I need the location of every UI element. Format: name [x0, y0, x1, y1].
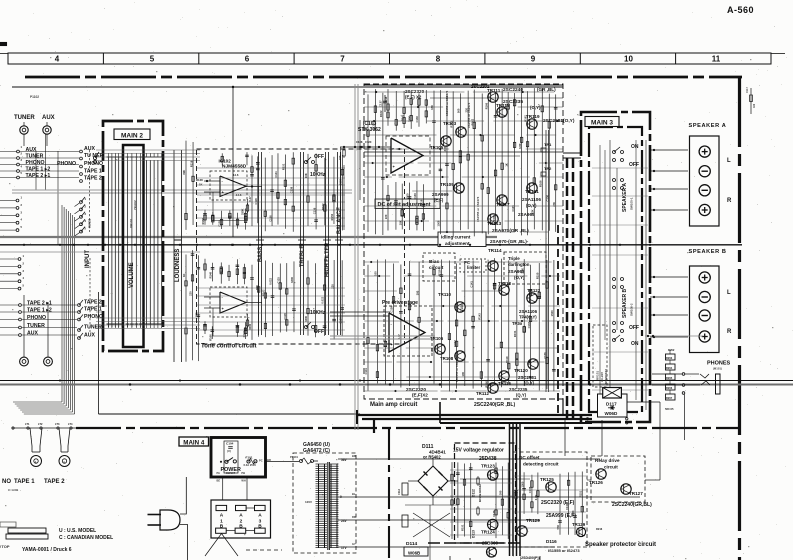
svg-text:VOLUME: VOLUME [129, 262, 135, 288]
svg-text:or R5402: or R5402 [423, 455, 441, 460]
svg-text:R166: R166 [538, 180, 542, 187]
svg-text:(E,F): (E,F) [434, 198, 444, 203]
svg-text:(GR ,BL): (GR ,BL) [537, 87, 556, 92]
svg-text:R202: R202 [668, 348, 675, 352]
svg-text:PC: PC [259, 458, 263, 462]
svg-text:3300: 3300 [443, 145, 447, 151]
svg-text:TP3o: TP3o [512, 321, 523, 326]
svg-text:14.6: 14.6 [233, 173, 239, 177]
svg-text:L: L [727, 158, 731, 164]
svg-text:6: 6 [245, 55, 250, 64]
svg-text:C139: C139 [289, 186, 293, 193]
svg-text:2SC2240(GR ,BL): 2SC2240(GR ,BL) [474, 402, 515, 408]
svg-text:R151: R151 [513, 330, 517, 337]
svg-text:TR126: TR126 [589, 480, 603, 485]
svg-text:R128: R128 [196, 178, 203, 182]
svg-text:A: A [258, 512, 262, 518]
svg-text:TAPE 1: TAPE 1 [14, 479, 35, 485]
svg-text:BALANCE: BALANCE [337, 207, 343, 234]
svg-text:C141: C141 [364, 368, 368, 375]
svg-text:3300: 3300 [290, 277, 294, 283]
svg-text:R148: R148 [209, 271, 213, 278]
svg-text:C136: C136 [528, 486, 532, 493]
svg-text:C136: C136 [543, 352, 547, 359]
svg-text:SW105-1: SW105-1 [630, 197, 634, 210]
svg-text:100: 100 [374, 271, 378, 276]
svg-text:220: 220 [189, 291, 193, 296]
svg-text:MSH8CK02: MSH8CK02 [604, 369, 608, 384]
svg-text:R143: R143 [498, 284, 502, 291]
svg-text:R162: R162 [262, 289, 266, 296]
svg-text:Tone control circuit: Tone control circuit [201, 344, 257, 350]
svg-text:LOUDNESS: LOUDNESS [175, 249, 181, 282]
svg-text:Relay drive: Relay drive [595, 458, 620, 463]
svg-text:R166: R166 [208, 334, 212, 341]
svg-text:(E,F)X2: (E,F)X2 [412, 393, 428, 398]
svg-text:1S1555 or 1S2473: 1S1555 or 1S2473 [467, 102, 471, 128]
svg-text:R205: R205 [666, 376, 673, 380]
svg-text:560 X5: 560 X5 [665, 407, 674, 411]
svg-text:PHONO: PHONO [27, 315, 46, 321]
svg-text:!TOP: !TOP [0, 544, 10, 549]
svg-text:darlington: darlington [508, 262, 530, 267]
svg-text:SPEAKER B: SPEAKER B [622, 288, 628, 318]
svg-text:R151: R151 [282, 163, 286, 170]
svg-text:7: 7 [340, 55, 345, 64]
svg-text:2SC2320 (E,F): 2SC2320 (E,F) [541, 500, 575, 506]
svg-text:15V voltage regulator: 15V voltage regulator [453, 448, 504, 454]
svg-text:TUNER: TUNER [84, 325, 102, 331]
svg-text:MAIN 2: MAIN 2 [121, 133, 143, 140]
svg-text:TAPE 2: TAPE 2 [84, 176, 102, 182]
svg-text:9: 9 [531, 55, 536, 64]
svg-text:C120: C120 [365, 140, 372, 144]
svg-text:C141: C141 [469, 281, 473, 288]
svg-text:BR: BR [352, 454, 356, 458]
svg-text:SW107: SW107 [226, 471, 236, 475]
svg-text:OFF: OFF [314, 154, 324, 160]
svg-text:(Q,Y): (Q,Y) [516, 393, 527, 398]
svg-text:C139: C139 [338, 317, 342, 324]
svg-text:1K: 1K [199, 183, 203, 187]
svg-text:R: R [727, 329, 732, 335]
svg-text:IC102: IC102 [219, 159, 232, 164]
svg-text:1500: 1500 [492, 214, 496, 220]
svg-text:D113: D113 [472, 530, 476, 538]
svg-text:120V: 120V [305, 500, 312, 504]
svg-text:C125: C125 [276, 277, 280, 284]
svg-text:10KHz: 10KHz [310, 172, 326, 178]
svg-text:R206: R206 [666, 386, 673, 390]
svg-text:OFF: OFF [629, 325, 639, 331]
svg-text:C141: C141 [565, 503, 569, 510]
svg-text:2SA970(GR ,BL): 2SA970(GR ,BL) [492, 228, 529, 234]
svg-text:3300: 3300 [248, 323, 252, 329]
svg-text:WH: WH [241, 478, 245, 482]
svg-text:10K: 10K [304, 173, 308, 178]
svg-text:C139: C139 [413, 193, 417, 200]
svg-text:R151: R151 [449, 121, 453, 128]
svg-text:C104: C104 [226, 442, 234, 446]
svg-text:TR129: TR129 [526, 518, 540, 523]
svg-text:D117: D117 [606, 402, 617, 407]
svg-text:2SA1106: 2SA1106 [522, 197, 541, 202]
svg-text:B: B [220, 524, 224, 530]
svg-text:(M101): (M101) [713, 367, 722, 371]
svg-text:220: 220 [464, 107, 468, 112]
svg-text:TUNER: TUNER [26, 154, 44, 160]
svg-text:RY101: RY101 [596, 371, 600, 380]
svg-text:VR101: VR101 [129, 218, 133, 228]
svg-text:A-560: A-560 [727, 5, 754, 15]
svg-text:C136: C136 [390, 306, 394, 313]
svg-text:INPUT: INPUT [85, 250, 91, 268]
svg-text:R207: R207 [666, 396, 673, 400]
svg-text:4: 4 [55, 55, 60, 64]
svg-text:C118: C118 [254, 198, 258, 205]
svg-text:C114: C114 [397, 488, 401, 495]
svg-text:33K: 33K [571, 510, 575, 515]
svg-text:C118: C118 [372, 123, 376, 130]
svg-text:TR120: TR120 [514, 368, 528, 373]
svg-text:GA6472 (C): GA6472 (C) [303, 448, 330, 454]
svg-text:SPEAKER A: SPEAKER A [689, 123, 727, 129]
svg-text:560: 560 [457, 108, 461, 113]
svg-text:(O,Y): (O,Y) [524, 381, 535, 386]
svg-text:R162: R162 [524, 115, 528, 122]
svg-text:82K: 82K [255, 285, 259, 290]
svg-text:LT2: LT2 [38, 422, 43, 426]
svg-text:circuit: circuit [604, 465, 618, 470]
svg-text:TR123: TR123 [481, 464, 495, 469]
svg-text:3300: 3300 [406, 193, 410, 199]
svg-text:C136: C136 [415, 116, 419, 123]
svg-text:2SA970-(GR ,BL)-: 2SA970-(GR ,BL)- [490, 239, 529, 244]
svg-text:560: 560 [556, 524, 560, 529]
svg-text:L: L [35, 460, 37, 464]
svg-text:3300: 3300 [304, 315, 308, 321]
svg-text:P1102: P1102 [30, 95, 39, 99]
svg-text:L: L [727, 290, 731, 296]
svg-text:W06B: W06B [408, 551, 420, 556]
svg-text:7BAX2: 7BAX2 [133, 200, 137, 210]
svg-text:ON: ON [631, 341, 639, 347]
svg-text:TAPE 1: TAPE 1 [84, 307, 102, 313]
svg-text:BE: BE [217, 478, 221, 482]
svg-text:TR108: TR108 [440, 356, 454, 361]
svg-text:1K: 1K [504, 163, 508, 166]
svg-text:TR114: TR114 [488, 248, 502, 253]
svg-text:R204: R204 [666, 366, 673, 370]
svg-text:LT3: LT3 [55, 422, 60, 426]
svg-text:SW105-2: SW105-2 [630, 303, 634, 316]
svg-text:MAIN 3: MAIN 3 [591, 120, 613, 127]
svg-text:25D438: 25D438 [479, 456, 497, 462]
svg-text:C108: C108 [356, 140, 363, 144]
svg-text:C136: C136 [492, 510, 496, 517]
svg-text:TP1: TP1 [544, 142, 552, 147]
svg-text:TP2: TP2 [544, 166, 552, 171]
svg-text:OFF: OFF [629, 162, 639, 168]
svg-text:0.47: 0.47 [248, 196, 252, 202]
svg-text:(2SD400(P)): (2SD400(P)) [520, 556, 540, 560]
svg-text:W06D: W06D [605, 411, 618, 416]
svg-text:TR125: TR125 [540, 477, 554, 482]
svg-text:C118: C118 [283, 313, 287, 320]
svg-text:0.022: 0.022 [453, 340, 457, 347]
svg-text:R151: R151 [578, 490, 582, 497]
svg-text:PHONO: PHONO [26, 160, 45, 166]
svg-text:TAPE 1 ▸2: TAPE 1 ▸2 [26, 167, 51, 173]
svg-text:RD: RD [352, 515, 356, 519]
svg-text:82K: 82K [530, 209, 534, 214]
svg-text:C137: C137 [379, 100, 383, 107]
svg-text:R162: R162 [379, 110, 383, 117]
svg-text:100: 100 [461, 372, 465, 377]
svg-text:R119: R119 [438, 269, 442, 276]
svg-text:1500: 1500 [520, 481, 524, 487]
svg-text:R143: R143 [478, 313, 482, 320]
svg-text:PHONO: PHONO [84, 314, 103, 320]
svg-text:A: A [239, 512, 243, 518]
svg-text:R: R [727, 198, 732, 204]
svg-text:TUNER: TUNER [27, 323, 45, 329]
svg-text:TUNER: TUNER [14, 115, 35, 121]
svg-text:TR129: TR129 [572, 522, 586, 527]
svg-text:GY: GY [352, 542, 356, 546]
svg-text:0.022: 0.022 [321, 296, 325, 303]
svg-text:F101: F101 [246, 456, 253, 460]
svg-text:C136: C136 [268, 215, 272, 222]
svg-text:R162: R162 [470, 118, 474, 125]
svg-text:1500: 1500 [550, 310, 554, 316]
svg-text:C139: C139 [218, 220, 222, 227]
svg-text:C103: C103 [527, 321, 531, 328]
svg-text:R148: R148 [384, 96, 388, 103]
svg-text:R203: R203 [666, 356, 673, 360]
svg-text:R143: R143 [400, 114, 404, 121]
svg-text:LT1: LT1 [25, 422, 30, 426]
svg-text:C117: C117 [746, 87, 749, 93]
svg-text:R151: R151 [461, 524, 465, 531]
svg-text:220: 220 [330, 284, 334, 289]
svg-text:C=AXB: C=AXB [8, 488, 19, 492]
svg-text:(U): (U) [227, 449, 231, 453]
svg-text:PC101: PC101 [290, 455, 298, 459]
svg-text:A: A [220, 512, 224, 518]
svg-text:HIGH FILTER: HIGH FILTER [325, 243, 331, 277]
svg-text:NO: NO [2, 479, 11, 485]
svg-text:L: L [64, 460, 66, 464]
svg-text:2.2K: 2.2K [534, 494, 538, 500]
svg-text:TAPE 2 ▸1: TAPE 2 ▸1 [26, 173, 51, 179]
svg-text:Triple: Triple [508, 256, 520, 261]
svg-text:1K: 1K [182, 273, 186, 276]
svg-text:R162: R162 [321, 203, 325, 210]
svg-text:AUX: AUX [26, 147, 37, 153]
svg-text:6.8K: 6.8K [518, 143, 522, 149]
svg-text:2.2K: 2.2K [520, 268, 524, 274]
svg-text:R150: R150 [535, 272, 539, 279]
svg-text:D114: D114 [406, 541, 418, 547]
svg-text:1S1555 or 1S2473: 1S1555 or 1S2473 [476, 196, 480, 222]
svg-text:SPEAKER B: SPEAKER B [689, 249, 727, 255]
svg-text:NJM4558D: NJM4558D [222, 164, 247, 170]
svg-text:U : U.S. MODEL: U : U.S. MODEL [59, 528, 96, 534]
svg-text:adjustment: adjustment [445, 241, 470, 246]
svg-text:82K: 82K [182, 170, 186, 175]
svg-text:2SC2240(GR,BL): 2SC2240(GR,BL) [612, 502, 652, 508]
svg-text:1S1555 or 1S2473: 1S1555 or 1S2473 [455, 356, 459, 382]
svg-text:R075E R63X2: R075E R63X2 [478, 484, 482, 502]
svg-text:AUX: AUX [27, 331, 38, 337]
svg-text:MAIN 4: MAIN 4 [183, 439, 205, 446]
svg-text:2SC2320: 2SC2320 [405, 89, 425, 94]
svg-text:detecting circuit: detecting circuit [523, 462, 559, 467]
svg-text:AUX: AUX [84, 333, 95, 339]
svg-text:TP4(O,Y): TP4(O,Y) [519, 315, 537, 320]
svg-text:8: 8 [436, 55, 441, 64]
svg-text:B: B [239, 524, 243, 530]
svg-text:YAMA-0001 / Druck 6: YAMA-0001 / Druck 6 [22, 547, 72, 553]
svg-text:R166: R166 [201, 217, 205, 224]
svg-text:(O,Y): (O,Y) [530, 105, 541, 110]
svg-text:TREBLE: TREBLE [300, 245, 306, 267]
svg-text:18K: 18K [430, 105, 434, 110]
svg-text:C136: C136 [312, 207, 316, 214]
svg-text:D116: D116 [546, 539, 557, 544]
svg-text:TR119: TR119 [526, 114, 540, 119]
svg-text:TR127: TR127 [629, 491, 643, 496]
svg-text:390: 390 [499, 490, 503, 495]
svg-text:R216: R216 [596, 527, 603, 531]
svg-text:11: 11 [712, 55, 721, 64]
svg-text:R166: R166 [484, 381, 488, 388]
svg-text:PA: PA [217, 471, 221, 475]
svg-text:SW102: SW102 [88, 218, 92, 228]
svg-text:TAPE 2: TAPE 2 [44, 479, 65, 485]
svg-text:Main amp circuit: Main amp circuit [370, 402, 417, 408]
svg-text:Speaker protector circuit: Speaker protector circuit [585, 542, 656, 548]
svg-text:BL: BL [352, 492, 356, 496]
svg-text:TAPE 1: TAPE 1 [84, 169, 102, 175]
svg-text:TR121: TR121 [525, 189, 539, 194]
svg-text:TR124: TR124 [481, 530, 495, 535]
svg-text:R119: R119 [189, 160, 193, 167]
svg-text:BASS: BASS [258, 246, 264, 262]
svg-text:DC offset: DC offset [519, 455, 540, 460]
svg-text:25B560: 25B560 [482, 541, 499, 546]
svg-text:B: B [258, 524, 262, 530]
svg-text:IS1555 or IS2473: IS1555 or IS2473 [548, 548, 580, 553]
svg-text:C141: C141 [242, 330, 246, 337]
svg-text:220: 220 [384, 214, 388, 219]
svg-text:R150: R150 [330, 213, 334, 220]
svg-text:0.022: 0.022 [269, 277, 273, 284]
svg-text:10: 10 [624, 55, 633, 64]
svg-text:TR116: TR116 [498, 381, 511, 386]
svg-text:2SA1106: 2SA1106 [519, 309, 538, 314]
svg-text:PB: PB [241, 471, 245, 475]
svg-text:R166: R166 [484, 102, 488, 109]
svg-text:R119: R119 [420, 199, 424, 206]
svg-text:330K: 330K [241, 209, 245, 215]
svg-text:6.3A 250V: 6.3A 250V [244, 463, 257, 467]
svg-text:C : CANADIAN MODEL: C : CANADIAN MODEL [59, 535, 113, 541]
svg-text:100: 100 [753, 103, 756, 108]
svg-text:C136: C136 [545, 195, 549, 202]
svg-text:limiter: limiter [467, 265, 480, 270]
svg-text:LT4: LT4 [68, 422, 73, 426]
svg-text:AUX: AUX [42, 115, 55, 121]
svg-text:C141: C141 [274, 171, 278, 178]
svg-text:2SC2581: 2SC2581 [518, 375, 537, 380]
svg-text:ON: ON [631, 144, 639, 150]
svg-text:220: 220 [338, 155, 342, 160]
svg-text:TAPE 2: TAPE 2 [84, 300, 102, 306]
svg-text:Idling current: Idling current [441, 235, 471, 240]
svg-text:5: 5 [150, 55, 155, 64]
svg-text:Pre drive stage: Pre drive stage [382, 300, 418, 306]
svg-text:PHONO: PHONO [57, 161, 76, 167]
svg-text:390: 390 [415, 290, 419, 295]
svg-text:TR112: TR112 [476, 391, 489, 396]
